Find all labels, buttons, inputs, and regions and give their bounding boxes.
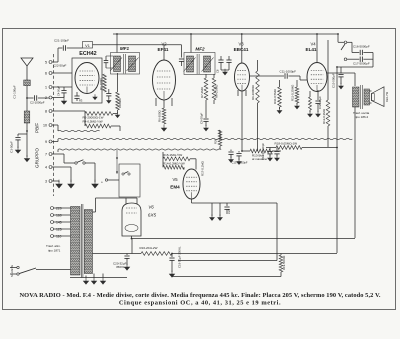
- svg-text:S1-RETE: S1-RETE: [10, 265, 14, 277]
- switch S2: [344, 41, 347, 44]
- switch S4: [105, 179, 107, 181]
- IF transformer MF1: [111, 53, 140, 75]
- capacitor C1: [24, 80, 31, 86]
- output transformer: [353, 87, 360, 107]
- ground: [161, 125, 166, 132]
- wire: [85, 276, 87, 278]
- wire: [27, 97, 34, 99]
- potentiometer R13: [242, 150, 250, 152]
- svg-text:GRUPPO: GRUPPO: [35, 148, 40, 168]
- wire: [155, 98, 157, 106]
- svg-text:MF1: MF1: [120, 46, 130, 51]
- svg-text:R10-0,5MΩ: R10-0,5MΩ: [273, 88, 277, 104]
- svg-text:C22-50pF: C22-50pF: [53, 63, 67, 67]
- wire terminal 6: [52, 72, 72, 74]
- terminal 3: [49, 180, 52, 183]
- capacitor C24: [226, 203, 228, 206]
- capacitor C11: [250, 75, 285, 77]
- ground: [68, 180, 74, 188]
- primary tap 145: [51, 221, 54, 224]
- ground: [115, 112, 119, 117]
- ground: [91, 278, 96, 285]
- wire OT secondary: [370, 90, 372, 92]
- resistor R14 cathode: [309, 91, 311, 97]
- wire: [26, 131, 28, 157]
- resistor R1: [103, 74, 107, 92]
- svg-text:R12-0,3MΩ: R12-0,3MΩ: [322, 108, 326, 124]
- wire wavy return: [57, 150, 59, 153]
- svg-text:6X5: 6X5: [148, 213, 157, 218]
- wire V6 cathode: [131, 236, 133, 239]
- wire OT primary bottom: [354, 107, 356, 238]
- ground: [277, 107, 282, 113]
- svg-text:R8-0,5MΩ: R8-0,5MΩ: [214, 84, 218, 98]
- speaker: [372, 87, 385, 107]
- svg-text:160: 160: [56, 214, 62, 218]
- wire filter line: [93, 253, 142, 255]
- capacitor C10: [205, 100, 207, 118]
- ground: [93, 94, 97, 99]
- wire: [85, 162, 95, 164]
- capacitor C12: [230, 150, 232, 152]
- svg-text:V6: V6: [148, 205, 154, 210]
- wire heater run: [178, 260, 277, 262]
- svg-text:C9-50pF: C9-50pF: [200, 113, 204, 124]
- svg-text:R4-0,5MΩ-½W: R4-0,5MΩ-½W: [83, 120, 103, 124]
- resistor R9: [257, 60, 259, 71]
- svg-text:C21-100pF: C21-100pF: [54, 39, 69, 43]
- capacitor C6: [104, 60, 109, 62]
- svg-text:022-7Ω: 022-7Ω: [385, 91, 389, 102]
- svg-text:C2-1000pF: C2-1000pF: [30, 100, 45, 104]
- tube V5 EM4: [183, 169, 200, 199]
- wire MF2 to B+ bus: [190, 34, 192, 53]
- primary tap 160: [51, 214, 54, 217]
- inductor L1: [24, 111, 30, 123]
- svg-text:4: 4: [45, 166, 47, 170]
- ground: [83, 278, 88, 285]
- wire terminal 5 to C21: [52, 61, 58, 63]
- junction box: [119, 164, 140, 197]
- svg-text:1: 1: [45, 86, 47, 90]
- svg-text:V5: V5: [172, 177, 178, 182]
- svg-text:C19-50µF-350VL: C19-50µF-350VL: [177, 246, 181, 268]
- shield box V1: [72, 58, 102, 103]
- svg-text:C17-5000pF: C17-5000pF: [353, 62, 370, 66]
- wire: [211, 203, 213, 216]
- svg-text:350VL: 350VL: [116, 265, 125, 269]
- capacitor C23: [74, 95, 79, 97]
- svg-text:R11-0,25MΩ: R11-0,25MΩ: [291, 84, 295, 101]
- capacitor C8: [218, 59, 223, 61]
- capacitor C19: [171, 253, 173, 255]
- capacitor C15: [340, 67, 342, 74]
- wire MF1 to B+ bus: [116, 34, 118, 53]
- svg-text:R9-20000Ω: R9-20000Ω: [251, 84, 255, 100]
- IF transformer MF2: [184, 53, 215, 75]
- terminal 9: [49, 140, 52, 143]
- svg-text:R3: R3: [79, 99, 83, 103]
- resistor R4: [85, 124, 111, 128]
- svg-text:V3: V3: [238, 41, 244, 46]
- ground: [61, 98, 66, 105]
- svg-text:C1-100pF: C1-100pF: [13, 85, 17, 99]
- primary tap 125: [51, 228, 54, 231]
- capacitor C18: [317, 90, 319, 100]
- svg-text:5: 5: [45, 61, 47, 65]
- svg-text:C3-50pF: C3-50pF: [10, 141, 14, 153]
- wire HT secondary: [93, 211, 96, 213]
- svg-text:145: 145: [56, 221, 62, 225]
- wire grid-cap run: [93, 44, 182, 46]
- svg-text:PB/F: PB/F: [35, 123, 40, 133]
- wire terminal 9 wavy AVC: [52, 141, 58, 143]
- svg-text:tipo 1871: tipo 1871: [48, 248, 61, 252]
- svg-text:220: 220: [56, 207, 62, 211]
- svg-text:125: 125: [56, 228, 62, 232]
- svg-text:C18-25µF: C18-25µF: [318, 96, 322, 109]
- wire B+ bus: [113, 33, 338, 35]
- wire bottom run: [70, 277, 127, 279]
- svg-text:C11-1000pF: C11-1000pF: [280, 70, 297, 74]
- wire: [219, 203, 221, 216]
- wire: [372, 53, 374, 68]
- wire bottom bus: [172, 276, 281, 278]
- svg-text:C4-50µF: C4-50µF: [57, 85, 61, 96]
- terminal 6: [49, 72, 52, 75]
- wire V3 plate to bus: [241, 34, 243, 63]
- power transformer: [71, 207, 81, 276]
- wire: [38, 97, 49, 99]
- primary tap 220: [51, 207, 54, 210]
- svg-text:8: 8: [45, 110, 47, 114]
- wire: [213, 100, 215, 104]
- svg-text:R6-300Ω: R6-300Ω: [158, 110, 162, 122]
- terminal 2: [49, 96, 52, 99]
- svg-text:tipo 186.2: tipo 186.2: [355, 115, 369, 119]
- terminal 10: [49, 124, 52, 127]
- capacitor C4: [61, 90, 66, 92]
- node: [26, 130, 28, 132]
- svg-text:R18-0,05MΩ-1W: R18-0,05MΩ-1W: [275, 141, 298, 145]
- tube V1 ECH42: [75, 63, 99, 94]
- capacitor C14: [266, 147, 276, 149]
- svg-text:C15-500pF: C15-500pF: [332, 73, 336, 88]
- resistor R5: [85, 112, 113, 116]
- capacitor C7: [179, 58, 184, 60]
- svg-text:7: 7: [45, 153, 47, 157]
- svg-text:110: 110: [56, 235, 62, 239]
- ground: [295, 103, 300, 109]
- wire terminal 10 wavy: [52, 124, 58, 126]
- svg-text:100000: 100000: [118, 98, 122, 108]
- wire V4 plate to OT: [327, 72, 355, 74]
- resistor R19: [280, 254, 282, 256]
- primary tap 110: [51, 235, 54, 238]
- svg-text:6: 6: [45, 72, 47, 76]
- svg-text:V1: V1: [85, 44, 90, 48]
- wire terminal 4: [52, 166, 71, 168]
- ground: [92, 180, 98, 188]
- svg-text:R20: R20: [214, 138, 218, 144]
- label box V1: [83, 42, 93, 49]
- resistor R11: [296, 80, 298, 87]
- ground: [100, 278, 105, 285]
- wire V4 screen to bus: [316, 34, 318, 63]
- wire B+ line: [132, 238, 356, 240]
- antenna: [21, 58, 33, 80]
- svg-text:R1-100Ω: R1-100Ω: [99, 78, 103, 90]
- wire: [163, 45, 165, 60]
- ground: [218, 214, 223, 220]
- node: [116, 157, 118, 159]
- wire terminal 1: [52, 86, 72, 88]
- wire terminal 3: [52, 180, 59, 182]
- svg-text:R17-0,1MΩ: R17-0,1MΩ: [200, 160, 204, 176]
- terminal 7: [49, 153, 52, 156]
- gruppo boundary (dashed): [53, 54, 55, 196]
- ground: [308, 111, 313, 117]
- svg-text:R16-2KΩ-2W: R16-2KΩ-2W: [140, 246, 158, 250]
- tube V2 EF41: [153, 60, 176, 100]
- ground: [210, 214, 215, 220]
- wire: [26, 86, 28, 98]
- switch S5: [122, 173, 124, 175]
- resistor R10: [279, 80, 281, 87]
- svg-text:10: 10: [43, 124, 47, 128]
- resistor R7: [204, 78, 208, 100]
- svg-text:MF2: MF2: [195, 47, 205, 52]
- svg-text:3: 3: [45, 180, 47, 184]
- svg-text:9: 9: [45, 140, 47, 144]
- capacitor C9: [226, 59, 231, 61]
- capacitor C5: [106, 93, 111, 95]
- tube V3 EBC41: [235, 63, 250, 91]
- svg-text:R7-2MΩ: R7-2MΩ: [200, 86, 204, 98]
- resistor R20: [218, 130, 222, 146]
- resistor R8: [212, 78, 216, 100]
- tube V6 6X5: [122, 203, 141, 236]
- switch S3: [75, 162, 77, 164]
- svg-text:R19-5000Ω: R19-5000Ω: [282, 256, 286, 270]
- svg-text:V4: V4: [310, 41, 316, 46]
- node antenna junction: [26, 97, 28, 99]
- wire terminal 7 to switch: [52, 153, 64, 155]
- terminal 8: [49, 110, 52, 113]
- terminal 5: [49, 61, 52, 64]
- capacitor C20: [126, 254, 128, 256]
- svg-text:Cinque espansioni OC, a 40, 41: Cinque espansioni OC, a 40, 41, 31, 25 e…: [119, 300, 281, 307]
- resistor R2: [116, 92, 120, 110]
- ground: [56, 180, 62, 188]
- ground: [24, 155, 29, 162]
- wire: [336, 67, 338, 253]
- capacitor C21: [62, 45, 64, 50]
- wire V6 plate leads: [125, 198, 127, 204]
- wire terminal 8: [52, 110, 85, 112]
- terminal 4: [49, 166, 52, 169]
- wire terminal 2 branch: [52, 97, 64, 99]
- svg-text:C16-5000pF: C16-5000pF: [353, 44, 370, 48]
- svg-text:ECH42: ECH42: [79, 51, 96, 57]
- capacitor C2: [34, 95, 36, 100]
- svg-text:al massimo: al massimo: [252, 157, 268, 161]
- wire V5 bottom: [191, 199, 193, 203]
- capacitor C3: [15, 137, 20, 139]
- svg-text:EF41: EF41: [158, 47, 169, 52]
- wire V3 cathode down: [241, 91, 243, 151]
- terminal 1: [49, 86, 52, 89]
- svg-text:EM4: EM4: [170, 185, 180, 190]
- wire: [67, 47, 83, 49]
- svg-text:Trasf. alim.: Trasf. alim.: [46, 244, 61, 248]
- mains switch S1: [17, 266, 19, 268]
- svg-text:EBC41: EBC41: [234, 47, 249, 52]
- resistor R12 screen: [327, 40, 329, 100]
- svg-text:EL41: EL41: [306, 47, 317, 52]
- tube V4 EL41: [307, 63, 327, 92]
- svg-text:2: 2: [45, 96, 47, 100]
- svg-text:C8: C8: [215, 69, 219, 73]
- svg-text:NOVA RADIO - Mod. F.4 - Medie: NOVA RADIO - Mod. F.4 - Medie divise, co…: [19, 292, 380, 299]
- resistor R6: [163, 100, 165, 108]
- wire: [18, 133, 27, 135]
- svg-text:C24: C24: [227, 209, 231, 214]
